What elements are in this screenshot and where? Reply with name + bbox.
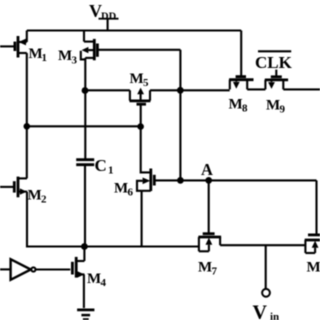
transistor M7: [198, 180, 221, 277]
wire Vin tap: [265, 245, 267, 289]
svg-text:CLK: CLK: [255, 53, 293, 72]
svg-text:DD: DD: [101, 12, 117, 23]
svg-text:M: M: [130, 71, 144, 87]
junction dot: [177, 87, 184, 94]
clock CLK label: [255, 51, 293, 72]
junction dot: [81, 243, 88, 250]
svg-text:M: M: [114, 181, 128, 197]
svg-text:V: V: [253, 302, 268, 320]
transistor M10: [305, 235, 320, 276]
svg-text:A: A: [201, 160, 213, 179]
svg-text:M: M: [198, 260, 212, 276]
transistor M8: [229, 77, 254, 115]
svg-text:M: M: [87, 271, 101, 287]
svg-text:1: 1: [108, 165, 114, 177]
wire C1 bottom plate down: [84, 166, 86, 247]
transistor M1: [0, 31, 47, 65]
svg-text:M: M: [58, 48, 72, 64]
wire to M5 source: [85, 89, 130, 91]
svg-text:6: 6: [128, 187, 134, 199]
terminal Vin: [262, 289, 270, 297]
wire M5 gate to M6: [141, 105, 151, 173]
wire M5 drain to M8: [150, 89, 230, 91]
wire node A horizontal: [154, 179, 316, 181]
svg-text:C: C: [95, 156, 107, 175]
power VDD label: [89, 1, 117, 23]
svg-text:M: M: [28, 188, 42, 204]
svg-text:2: 2: [41, 194, 47, 206]
wire M8 gate feed: [240, 31, 242, 77]
svg-text:5: 5: [143, 77, 149, 89]
transistor M4: [72, 246, 106, 309]
junction dot node A: [205, 177, 212, 184]
capacitor C1: [76, 156, 113, 176]
svg-text:4: 4: [101, 277, 107, 289]
wire M6 drain down: [141, 191, 143, 247]
wire M8 to M9: [247, 88, 265, 90]
wire M3 gate lead: [97, 49, 180, 51]
junction dot: [137, 123, 144, 130]
ground: [77, 310, 94, 319]
junction dot: [24, 123, 31, 130]
wire M1 drain to M2: [26, 53, 28, 178]
svg-text:3: 3: [72, 55, 78, 67]
svg-text:8: 8: [242, 103, 248, 115]
input Vin label: [253, 302, 280, 320]
junction dot: [177, 177, 184, 184]
junction dot: [82, 87, 89, 94]
wire VDD rail: [27, 29, 241, 31]
wire M3 drain to C1: [84, 58, 86, 159]
inverter U1: [0, 259, 70, 280]
transistor M9: [265, 77, 288, 116]
svg-text:M: M: [266, 98, 280, 114]
svg-text:9: 9: [280, 104, 286, 116]
VDD terminal tick: [107, 19, 109, 31]
svg-text:in: in: [270, 311, 279, 320]
wire middle horizontal: [27, 125, 141, 127]
transistor M5: [130, 71, 151, 104]
node A: [201, 160, 213, 179]
wire bottom right rail: [220, 244, 305, 246]
transistor M6: [114, 169, 154, 199]
transistor M3: [58, 31, 97, 67]
wire M9 drain out: [283, 88, 320, 90]
wire A to M10 gate: [315, 180, 317, 234]
wire gate node vertical: [179, 50, 181, 181]
svg-text:7: 7: [212, 266, 218, 278]
svg-text:1: 1: [42, 52, 48, 64]
transistor M2: [0, 177, 47, 206]
svg-text:M: M: [307, 260, 320, 276]
wire CLK to M9 gate: [275, 70, 277, 77]
wire bottom left rail: [27, 192, 199, 247]
svg-text:M: M: [229, 97, 243, 113]
